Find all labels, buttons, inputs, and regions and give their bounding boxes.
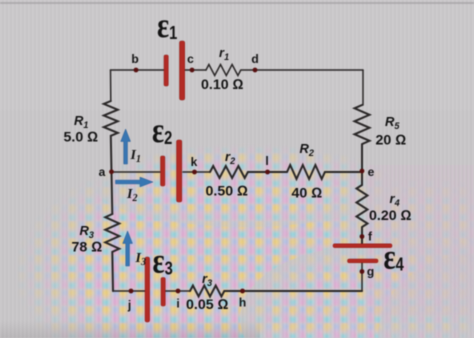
svg-text:0.10 Ω: 0.10 Ω: [201, 77, 244, 93]
svg-text:k: k: [191, 155, 198, 169]
svg-text:0.05 Ω: 0.05 Ω: [186, 297, 229, 313]
svg-text:0.50 Ω: 0.50 Ω: [206, 184, 249, 200]
svg-text:c: c: [187, 52, 194, 66]
svg-text:l: l: [265, 154, 268, 168]
svg-text:40 Ω: 40 Ω: [292, 186, 323, 202]
svg-text:5.0 Ω: 5.0 Ω: [64, 130, 99, 146]
svg-text:20 Ω: 20 Ω: [376, 133, 407, 149]
svg-text:h: h: [239, 296, 246, 310]
svg-text:a: a: [99, 165, 106, 179]
svg-text:j: j: [127, 298, 131, 312]
svg-text:g: g: [367, 265, 374, 279]
svg-text:d: d: [251, 52, 258, 66]
svg-text:0.20 Ω: 0.20 Ω: [369, 208, 412, 224]
svg-text:e: e: [368, 165, 375, 179]
svg-text:i: i: [176, 297, 179, 311]
svg-text:b: b: [131, 52, 138, 66]
svg-text:78 Ω: 78 Ω: [72, 240, 103, 256]
